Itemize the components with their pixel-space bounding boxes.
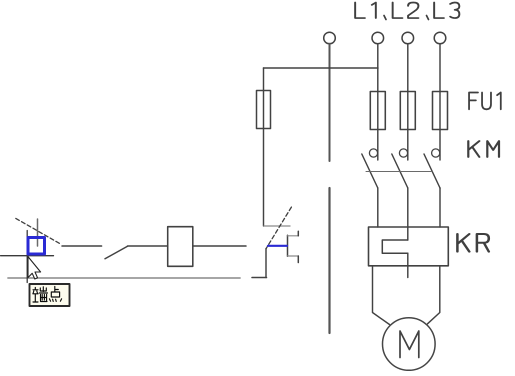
KR aux contact lower lead xyxy=(265,249,267,278)
contactor KM fixed contact C xyxy=(432,149,440,157)
fuse FU2 control xyxy=(257,91,271,129)
wire control row segment 3 xyxy=(193,245,246,247)
label KM xyxy=(468,141,499,157)
crosshair horizontal xyxy=(1,255,54,257)
net labels L1.L2.L3 xyxy=(355,3,459,20)
terminal L2 xyxy=(372,32,384,44)
wire KR to motor left xyxy=(373,266,390,325)
label KR xyxy=(457,234,488,252)
terminal L4 xyxy=(434,32,446,44)
contactor KM moving contact A xyxy=(362,154,378,188)
fuse FU1 phase A xyxy=(370,92,385,130)
thermal relay KR heater element xyxy=(382,240,408,253)
KR aux contact blade (dashed) xyxy=(266,207,291,249)
contactor KM fixed contact B xyxy=(399,149,407,157)
wire control row segment 1 xyxy=(62,245,102,247)
wire control branch vertical xyxy=(263,68,265,226)
thermal relay KR box xyxy=(369,227,449,266)
start contact blade xyxy=(105,246,128,259)
motor M letter xyxy=(400,331,419,358)
tooltip box xyxy=(30,284,70,306)
wire KR heater output xyxy=(407,253,409,277)
wire control row segment 2 xyxy=(128,245,168,247)
KR aux thermal element top arm xyxy=(288,235,299,237)
wire control bus vertical upper xyxy=(329,44,331,161)
KR aux thermal element top tick xyxy=(297,231,299,236)
KR aux thermal element vertical xyxy=(287,235,289,256)
tooltip text 端 xyxy=(33,287,48,302)
fuse FU1 phase B xyxy=(400,92,415,130)
KR aux thermal element bottom arm xyxy=(288,255,299,257)
snap marker square xyxy=(28,238,45,255)
contactor KM linkage xyxy=(366,171,432,173)
motor M circle xyxy=(383,318,436,371)
wire phase C vertical xyxy=(439,44,441,160)
stop contact moving blade (dashed) xyxy=(16,218,61,244)
wire phase B to KR heater xyxy=(407,188,409,240)
crosshair vertical xyxy=(26,231,28,283)
fuse FU1 phase C xyxy=(433,92,448,130)
wire branch top horizontal xyxy=(264,67,379,69)
wire phase B vertical xyxy=(407,44,409,160)
blue rubber-band line xyxy=(268,245,287,247)
label FU1 xyxy=(469,93,501,110)
coil KM xyxy=(168,227,193,267)
KR aux thermal element bottom tick xyxy=(297,256,299,263)
wire phase C to KR xyxy=(439,188,441,227)
cursor arrow xyxy=(28,257,41,279)
wire bottom stub xyxy=(252,277,267,279)
terminal L3 xyxy=(402,32,414,44)
wire KR to motor right xyxy=(428,266,440,324)
wire control bus vertical lower xyxy=(328,188,330,333)
wire bottom gray line xyxy=(8,277,240,279)
wire phase A vertical xyxy=(377,44,379,160)
wire phase A to KR xyxy=(377,188,379,227)
stop contact vertical lead xyxy=(37,219,39,246)
contactor KM fixed contact A xyxy=(369,149,377,157)
contactor KM moving contact C xyxy=(424,154,440,188)
contactor KM moving contact B xyxy=(392,154,408,188)
KR aux contact top stub xyxy=(264,225,290,227)
terminal L1 xyxy=(324,32,336,44)
tooltip text 点 xyxy=(49,287,61,302)
